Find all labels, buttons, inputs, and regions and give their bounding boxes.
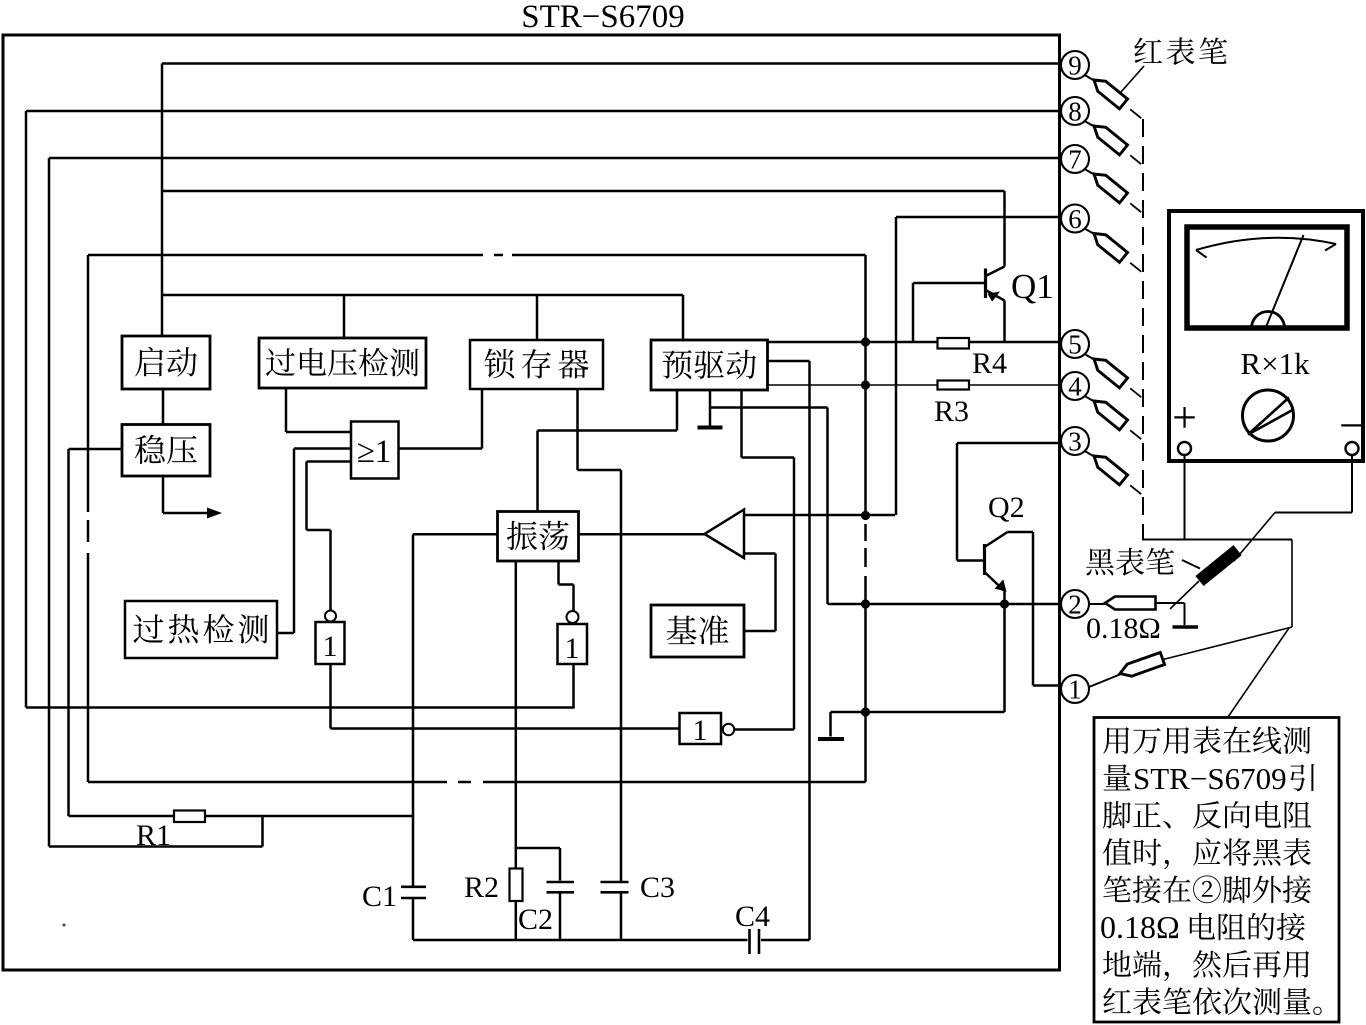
resistor R1 — [136, 811, 205, 853]
red test probe at pin 8 — [1086, 121, 1142, 164]
pin 8 circle — [1061, 97, 1089, 127]
pin 1 circle — [1061, 675, 1089, 705]
wire comparator output to pin6 riser — [744, 514, 895, 517]
svg-text:C2: C2 — [518, 903, 553, 936]
svg-text:R2: R2 — [464, 871, 499, 904]
wire minus terminal to black probe — [1170, 513, 1352, 610]
scan speck — [62, 923, 65, 926]
svg-text:Q1: Q1 — [1011, 267, 1054, 306]
ground at y712 — [818, 737, 844, 741]
comparator triangle — [705, 510, 745, 559]
svg-text:1: 1 — [565, 632, 580, 665]
wire inverter 1a output to NOT gate input — [331, 664, 680, 729]
block 过电压检测 (overvoltage detect) — [259, 338, 426, 388]
wire 稳压 output arrow — [163, 476, 222, 519]
wire x88 left rail with break — [87, 255, 90, 782]
svg-text:C3: C3 — [640, 871, 675, 904]
wire y782 rail with break — [88, 781, 866, 784]
block 过热检测 (overheat detect) — [125, 601, 277, 658]
NOT gate 1c (right bubble) — [680, 713, 735, 747]
resistor R4 — [938, 338, 1008, 380]
wire Q2 collector to pin1 — [1008, 532, 1062, 686]
block 预驱动 (pre-driver) — [651, 340, 768, 390]
wire pin8 net: left rail and bottom run to inverter — [26, 111, 1061, 709]
wire y712 ground run — [831, 712, 1005, 737]
red test probe at pin 5 — [1086, 354, 1142, 397]
pin 7 circle — [1061, 145, 1089, 175]
wire 振荡 to R2 branch — [515, 561, 518, 940]
junction dots — [861, 337, 1009, 716]
wire R1 line — [69, 815, 414, 818]
svg-text:8: 8 — [1068, 97, 1082, 127]
svg-text:R4: R4 — [972, 347, 1007, 380]
svg-text:0.18Ω: 0.18Ω — [1100, 909, 1180, 945]
wire pin2 line — [828, 603, 1062, 606]
svg-text:3: 3 — [1068, 427, 1082, 457]
svg-text:Q2: Q2 — [988, 491, 1025, 524]
wire x865 vertical with break — [864, 342, 867, 782]
label 红表笔 (red probe) with pointer — [1121, 37, 1227, 92]
block 振荡 (oscillator) — [498, 512, 579, 562]
wire 过电压检测 to OR gate — [286, 388, 351, 432]
transistor Q1 (PNP) — [913, 267, 1054, 343]
block 基准 (reference) — [651, 605, 744, 657]
wire y191 net: to Q1 collector — [162, 191, 1005, 267]
red probe at pin 1 — [1089, 652, 1165, 687]
svg-text:STR−S6709: STR−S6709 — [1133, 761, 1287, 796]
wire 预驱动 to 振荡 top — [538, 390, 678, 512]
inverter 1b (top bubble, under oscillator) — [558, 611, 588, 665]
transistor Q2 (NPN) — [985, 491, 1025, 592]
svg-text:1: 1 — [693, 714, 708, 747]
wire inverter 1a to OR gate input 3 — [307, 462, 352, 611]
svg-text:5: 5 — [1068, 330, 1082, 360]
wire 振荡 left to C1 branch — [413, 534, 498, 940]
svg-text:0.18Ω: 0.18Ω — [1086, 612, 1161, 645]
svg-text:R×1k: R×1k — [1240, 346, 1310, 381]
pin 2 circle — [1061, 590, 1089, 620]
dashed probe bus to + terminal — [1143, 119, 1185, 540]
svg-text:7: 7 — [1068, 145, 1082, 175]
svg-text:≥1: ≥1 — [357, 434, 392, 470]
wire pin6 net: to comparator output — [896, 217, 1061, 515]
wire 锁存器 to C3 — [578, 389, 622, 940]
OR gate &#8805;1 — [351, 422, 399, 479]
wire top supply bus y295 with drops to blocks — [162, 295, 683, 340]
wire 稳压 left input — [69, 449, 123, 816]
pin 9 circle — [1061, 51, 1089, 81]
wire NOT gate output to 预驱动 — [734, 390, 794, 730]
wire y255 net: pins 5/4 rail with break — [88, 255, 866, 342]
wire OR gate output to 锁存器 — [399, 389, 483, 449]
svg-text:1: 1 — [1068, 675, 1082, 705]
capacitor C4 — [735, 900, 770, 954]
wire 预驱动 ground branch to pin2 line — [710, 408, 828, 605]
svg-text:C1: C1 — [362, 880, 397, 913]
resistor R2 — [464, 869, 523, 905]
wire C2 branch — [516, 848, 560, 940]
callout leader line — [1228, 628, 1289, 717]
red test probe at pin 4 — [1086, 396, 1142, 439]
instruction text box — [1094, 718, 1339, 1023]
inverter 1a (top bubble) — [316, 611, 345, 665]
red test probe at pin 7 — [1086, 169, 1142, 212]
meter scale window with needle — [1187, 227, 1347, 328]
wire 预驱动 mid-right down to bottom rail — [768, 361, 810, 940]
meter plus terminal — [1172, 393, 1197, 540]
pin 4 circle — [1061, 372, 1089, 402]
svg-text:6: 6 — [1068, 204, 1082, 234]
wire 过热检测 to OR gate input 2 — [277, 449, 351, 634]
capacitor C2 — [518, 882, 574, 936]
block 启动 (start) — [122, 336, 210, 389]
svg-text:R1: R1 — [136, 819, 171, 852]
pin 6 circle — [1061, 204, 1089, 234]
title STR-S6709 — [521, 0, 685, 35]
svg-text:STR−S6709: STR−S6709 — [521, 0, 685, 35]
red test probe at pin 6 — [1086, 229, 1142, 272]
pin 5 circle — [1061, 330, 1089, 360]
capacitor C3 — [601, 871, 676, 904]
wire pin1 probe to + line — [1163, 540, 1292, 660]
wire Q2 emitter down — [1003, 591, 1006, 712]
svg-text:+: + — [1172, 393, 1197, 442]
svg-text:4: 4 — [1068, 372, 1082, 402]
wire pin5 line from 预驱动 through R4 — [768, 341, 1062, 344]
resistor 0.18 ohm at pin 2 — [1086, 597, 1198, 646]
meter minus terminal — [1339, 401, 1364, 513]
wire pin4 line from 预驱动 through R3 — [768, 384, 1062, 386]
label 黑表笔 with pointer — [1086, 548, 1200, 576]
block 锁存器 (latch) — [470, 340, 603, 389]
red test probe at pin 9 — [1086, 75, 1142, 118]
block 稳压 (regulator) — [122, 425, 210, 477]
svg-text:R3: R3 — [934, 395, 969, 428]
svg-text:C4: C4 — [735, 900, 770, 933]
wire bottom rail with C4 — [413, 939, 810, 942]
svg-text:1: 1 — [323, 630, 338, 663]
capacitor C1 — [362, 880, 426, 913]
wire 启动 to 稳压 — [162, 389, 165, 425]
wire pin3 to Q2 base — [957, 443, 1061, 561]
black probe (黑表笔) body — [1195, 545, 1241, 586]
multimeter body — [1169, 211, 1363, 461]
meter rotary dial knob — [1243, 390, 1294, 441]
svg-text:2: 2 — [1068, 590, 1082, 620]
wire 振荡 to inverter 1b — [559, 561, 574, 611]
IC outline box STR-S6709 — [3, 35, 1060, 970]
meter range text R x 1k — [1240, 346, 1310, 381]
wire pin9 net: top wire and vertical to 启动 — [162, 64, 1061, 337]
svg-text:9: 9 — [1068, 51, 1082, 81]
red test probe at pin 3 — [1086, 451, 1142, 494]
wire 振荡 to comparator input — [579, 533, 705, 536]
resistor R3 — [934, 381, 969, 429]
ground at 预驱动 — [698, 390, 723, 428]
wire comparator to 基准 — [744, 554, 776, 632]
wire pin7 net: left rail, bottom jog to R1 line — [49, 158, 1061, 847]
pin 3 circle — [1061, 427, 1089, 457]
